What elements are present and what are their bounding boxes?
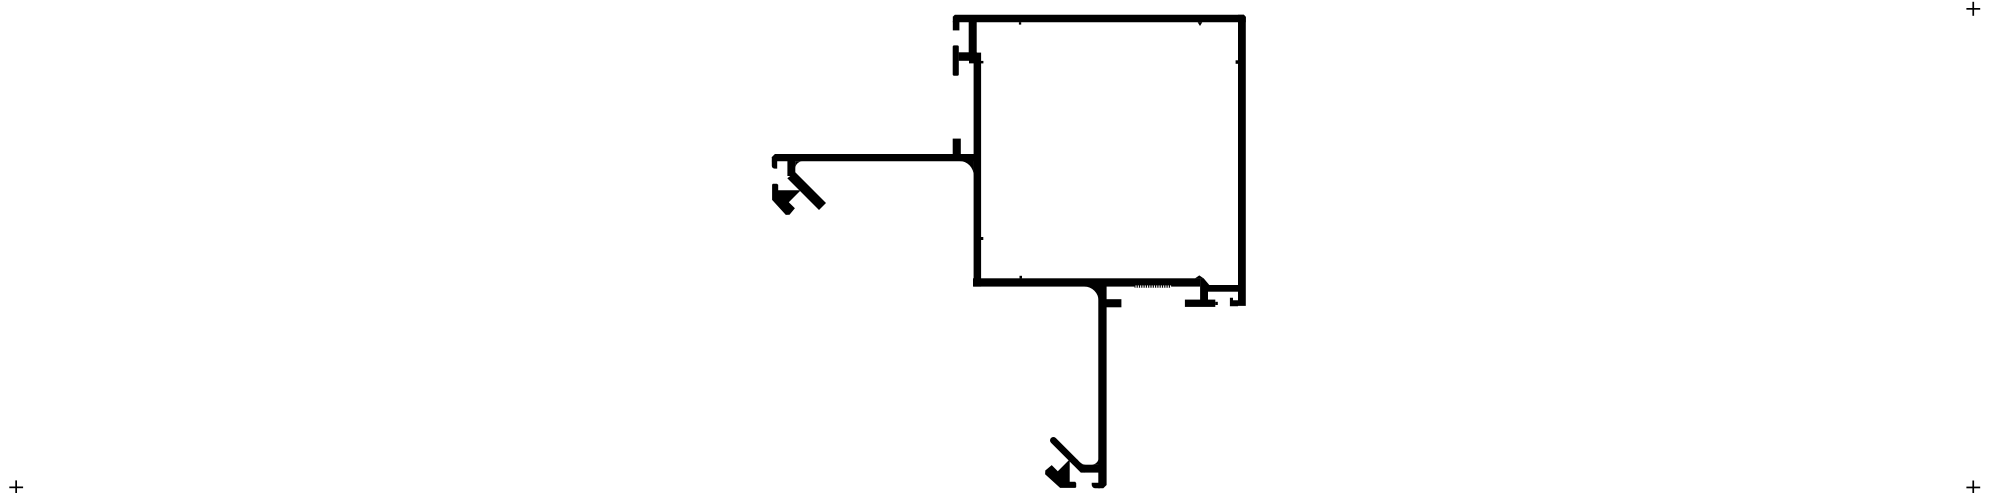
junction tick (981, 61, 983, 64)
bottom arm stub (1106, 299, 1122, 307)
bottom hook pocket fillet (1080, 462, 1086, 464)
left hook jaw (772, 184, 800, 215)
bottom hook stem fillet (1092, 457, 1099, 464)
top-left junction block (969, 52, 981, 63)
bottom wall tick (1020, 276, 1023, 279)
registration mark top-right (1966, 2, 1980, 16)
bottom wall peak (1195, 275, 1204, 278)
frame right wall (1238, 15, 1246, 306)
left hook diagonal (787, 172, 826, 210)
lower bar (1208, 285, 1238, 292)
frame left wall (974, 53, 982, 287)
left hook lip (772, 161, 777, 169)
bottom arm fillet (1084, 287, 1098, 301)
bottom hook stem (1084, 465, 1100, 473)
top wall notch triangle (1198, 22, 1203, 26)
top-left lip (953, 21, 960, 30)
bottom arm (1098, 286, 1106, 488)
bottom hook lip (1092, 483, 1100, 488)
right wall foot (1230, 298, 1238, 307)
left hook stem (787, 161, 795, 176)
frame top wall (953, 15, 1246, 23)
bottom hook diagonal (1053, 440, 1075, 462)
serration slits (1136, 285, 1172, 288)
top-left channel bar (953, 45, 959, 75)
bottom hook jaw (1045, 460, 1076, 488)
frame bottom wall (973, 278, 1200, 286)
left wall tick (981, 237, 983, 240)
bottom hook diagonal junction (1069, 459, 1085, 472)
registration mark bottom-left (9, 480, 23, 493)
leg foot tooth (1215, 302, 1218, 305)
left arm stub (953, 139, 961, 155)
top wall tick (1019, 22, 1021, 24)
left hook stem fillet (795, 161, 802, 168)
serrated strip base (1135, 284, 1172, 288)
left arm (772, 154, 974, 161)
registration mark bottom-right (1966, 481, 1980, 493)
right wall tick (1236, 60, 1238, 64)
top-left stem (969, 21, 977, 53)
left arm fillet (959, 161, 973, 176)
glazing leg foot (1185, 300, 1215, 307)
glazing leg (1200, 278, 1209, 300)
top-left bridge (959, 52, 969, 61)
